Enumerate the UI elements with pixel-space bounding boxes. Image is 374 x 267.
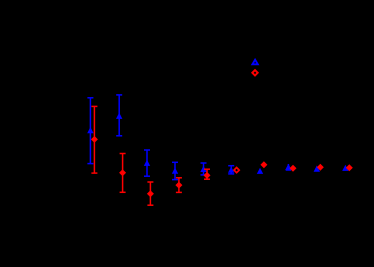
red diamond marker 4 xyxy=(175,182,182,189)
red diamond marker 9 xyxy=(317,164,324,171)
red diamond marker 3 xyxy=(147,190,154,197)
red error bar 1 xyxy=(91,106,97,173)
blue triangle marker 3 xyxy=(144,160,150,166)
red error bar 4 xyxy=(176,178,182,193)
blue triangle marker 4 xyxy=(172,168,178,174)
blue triangle marker 2 xyxy=(116,113,122,119)
blue error bar 2 xyxy=(116,95,122,136)
blue error bar 6 xyxy=(228,166,234,174)
red diamond marker 7 xyxy=(260,161,267,168)
blue error bar 5 xyxy=(201,163,207,175)
blue triangle marker 6 xyxy=(228,167,234,173)
legend open red diamond xyxy=(252,70,257,75)
blue error bar 8 xyxy=(286,164,291,170)
blue error bar 4 xyxy=(172,162,178,179)
blue triangle marker 5 xyxy=(200,166,206,172)
blue triangle marker 7 xyxy=(257,168,263,174)
red diamond marker 10 xyxy=(346,164,353,171)
blue triangle marker 8 xyxy=(285,164,291,170)
red error bar 3 xyxy=(147,182,153,205)
red diamond marker 8 xyxy=(290,165,297,172)
legend open blue triangle xyxy=(252,60,257,65)
red open diamond marker 6 xyxy=(234,168,239,173)
red diamond marker 2 xyxy=(119,169,126,176)
blue error bar 1 xyxy=(87,98,93,164)
blue error bar 3 xyxy=(144,150,150,176)
blue triangle marker 10 xyxy=(342,165,348,171)
red error bar 2 xyxy=(120,154,126,193)
red diamond marker 5 xyxy=(204,172,211,179)
blue triangle marker 1 xyxy=(87,127,93,133)
blue triangle marker 9 xyxy=(314,166,320,172)
red error bar 5 xyxy=(204,169,210,179)
red diamond marker 1 xyxy=(91,136,98,143)
